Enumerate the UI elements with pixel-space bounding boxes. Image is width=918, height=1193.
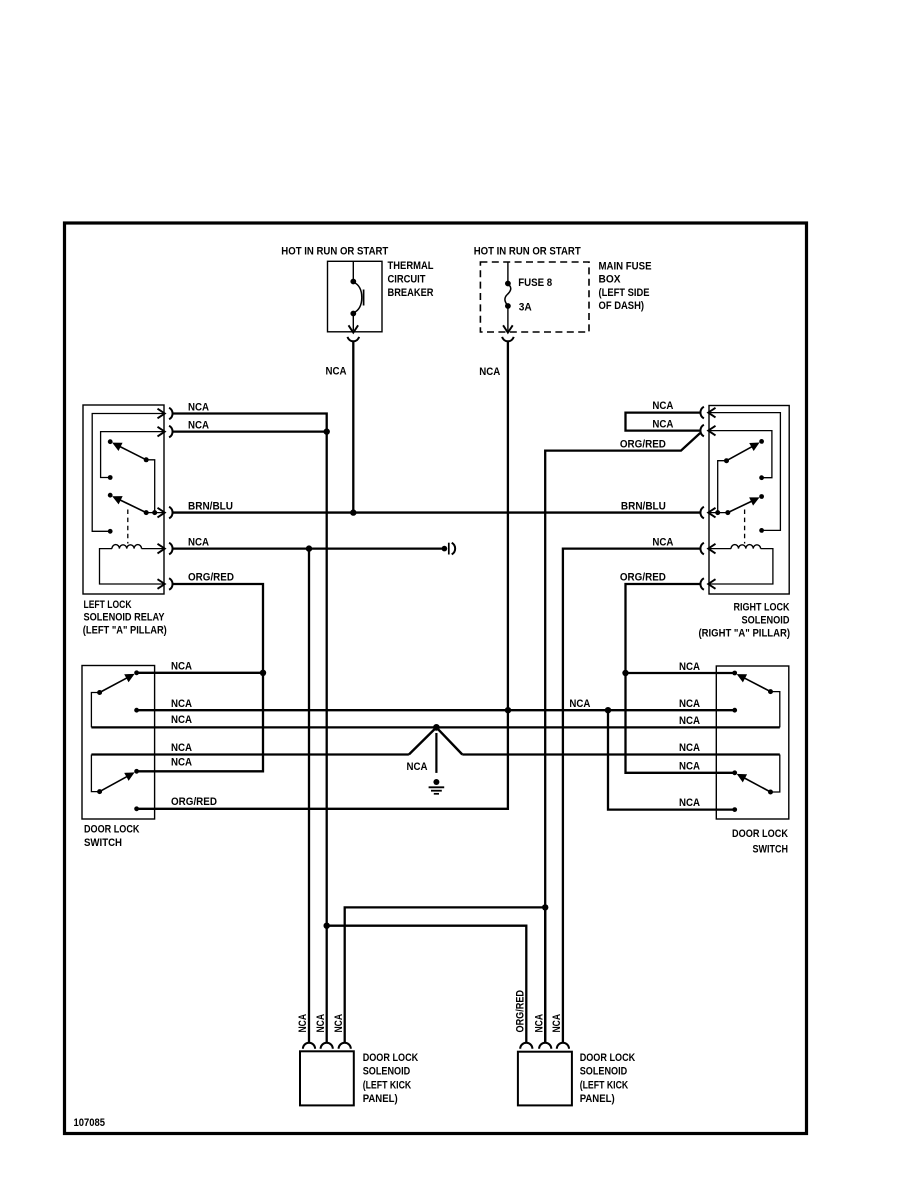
svg-text:NCA: NCA <box>171 757 192 769</box>
svg-text:NCA: NCA <box>679 661 700 673</box>
svg-text:(LEFT KICK: (LEFT KICK <box>580 1080 629 1092</box>
svg-text:SOLENOID: SOLENOID <box>363 1066 411 1078</box>
svg-text:ORG/RED: ORG/RED <box>515 990 527 1033</box>
svg-text:BRN/BLU: BRN/BLU <box>188 500 233 512</box>
svg-text:NCA: NCA <box>188 419 209 431</box>
svg-text:PANEL): PANEL) <box>363 1093 398 1105</box>
svg-text:NCA: NCA <box>171 661 192 673</box>
svg-text:SWITCH: SWITCH <box>753 843 789 855</box>
svg-text:NCA: NCA <box>679 715 700 727</box>
svg-text:ORG/RED: ORG/RED <box>171 796 217 808</box>
svg-text:NCA: NCA <box>569 698 590 710</box>
svg-text:NCA: NCA <box>479 366 500 378</box>
svg-text:NCA: NCA <box>171 742 192 754</box>
svg-text:SWITCH: SWITCH <box>84 837 122 849</box>
svg-text:107085: 107085 <box>74 1117 106 1129</box>
svg-text:3A: 3A <box>519 302 532 314</box>
svg-text:(RIGHT "A" PILLAR): (RIGHT "A" PILLAR) <box>699 628 791 640</box>
svg-text:NCA: NCA <box>679 742 700 754</box>
svg-text:LEFT LOCK: LEFT LOCK <box>84 599 132 611</box>
svg-text:DOOR LOCK: DOOR LOCK <box>363 1052 419 1064</box>
svg-text:FUSE 8: FUSE 8 <box>518 277 552 289</box>
svg-text:DOOR LOCK: DOOR LOCK <box>84 824 140 836</box>
svg-text:NCA: NCA <box>551 1014 563 1033</box>
svg-text:NCA: NCA <box>679 698 700 710</box>
svg-text:NCA: NCA <box>297 1014 309 1033</box>
svg-text:DOOR LOCK: DOOR LOCK <box>732 828 788 840</box>
svg-text:DOOR LOCK: DOOR LOCK <box>580 1052 636 1064</box>
svg-text:SOLENOID: SOLENOID <box>580 1066 628 1078</box>
svg-text:ORG/RED: ORG/RED <box>188 572 234 584</box>
svg-text:(LEFT SIDE: (LEFT SIDE <box>599 287 650 299</box>
svg-text:NCA: NCA <box>679 797 700 809</box>
svg-text:NCA: NCA <box>188 401 209 413</box>
svg-text:SOLENOID: SOLENOID <box>742 615 790 627</box>
svg-text:RIGHT LOCK: RIGHT LOCK <box>734 602 790 614</box>
svg-text:OF DASH): OF DASH) <box>599 300 645 312</box>
svg-text:NCA: NCA <box>171 714 192 726</box>
svg-text:NCA: NCA <box>679 760 700 772</box>
svg-text:HOT IN RUN OR START: HOT IN RUN OR START <box>281 246 388 258</box>
svg-text:(LEFT KICK: (LEFT KICK <box>363 1080 412 1092</box>
svg-text:NCA: NCA <box>315 1014 327 1033</box>
svg-text:NCA: NCA <box>333 1014 345 1033</box>
svg-text:BRN/BLU: BRN/BLU <box>621 501 666 513</box>
svg-text:ORG/RED: ORG/RED <box>620 439 666 451</box>
svg-text:NCA: NCA <box>652 536 673 548</box>
svg-text:NCA: NCA <box>407 761 428 773</box>
svg-text:NCA: NCA <box>188 536 209 548</box>
svg-text:BOX: BOX <box>599 274 621 286</box>
svg-text:BREAKER: BREAKER <box>388 287 434 299</box>
svg-text:NCA: NCA <box>652 419 673 431</box>
svg-text:SOLENOID RELAY: SOLENOID RELAY <box>84 612 165 624</box>
svg-text:(LEFT "A" PILLAR): (LEFT "A" PILLAR) <box>83 625 167 637</box>
svg-text:NCA: NCA <box>652 400 673 412</box>
svg-text:CIRCUIT: CIRCUIT <box>388 273 426 285</box>
svg-text:ORG/RED: ORG/RED <box>620 572 666 584</box>
svg-text:NCA: NCA <box>533 1014 545 1033</box>
svg-text:THERMAL: THERMAL <box>388 260 434 272</box>
svg-text:NCA: NCA <box>171 698 192 710</box>
svg-text:NCA: NCA <box>326 366 347 378</box>
svg-text:MAIN FUSE: MAIN FUSE <box>599 260 652 272</box>
svg-text:HOT IN RUN OR START: HOT IN RUN OR START <box>474 246 581 258</box>
svg-text:PANEL): PANEL) <box>580 1093 615 1105</box>
